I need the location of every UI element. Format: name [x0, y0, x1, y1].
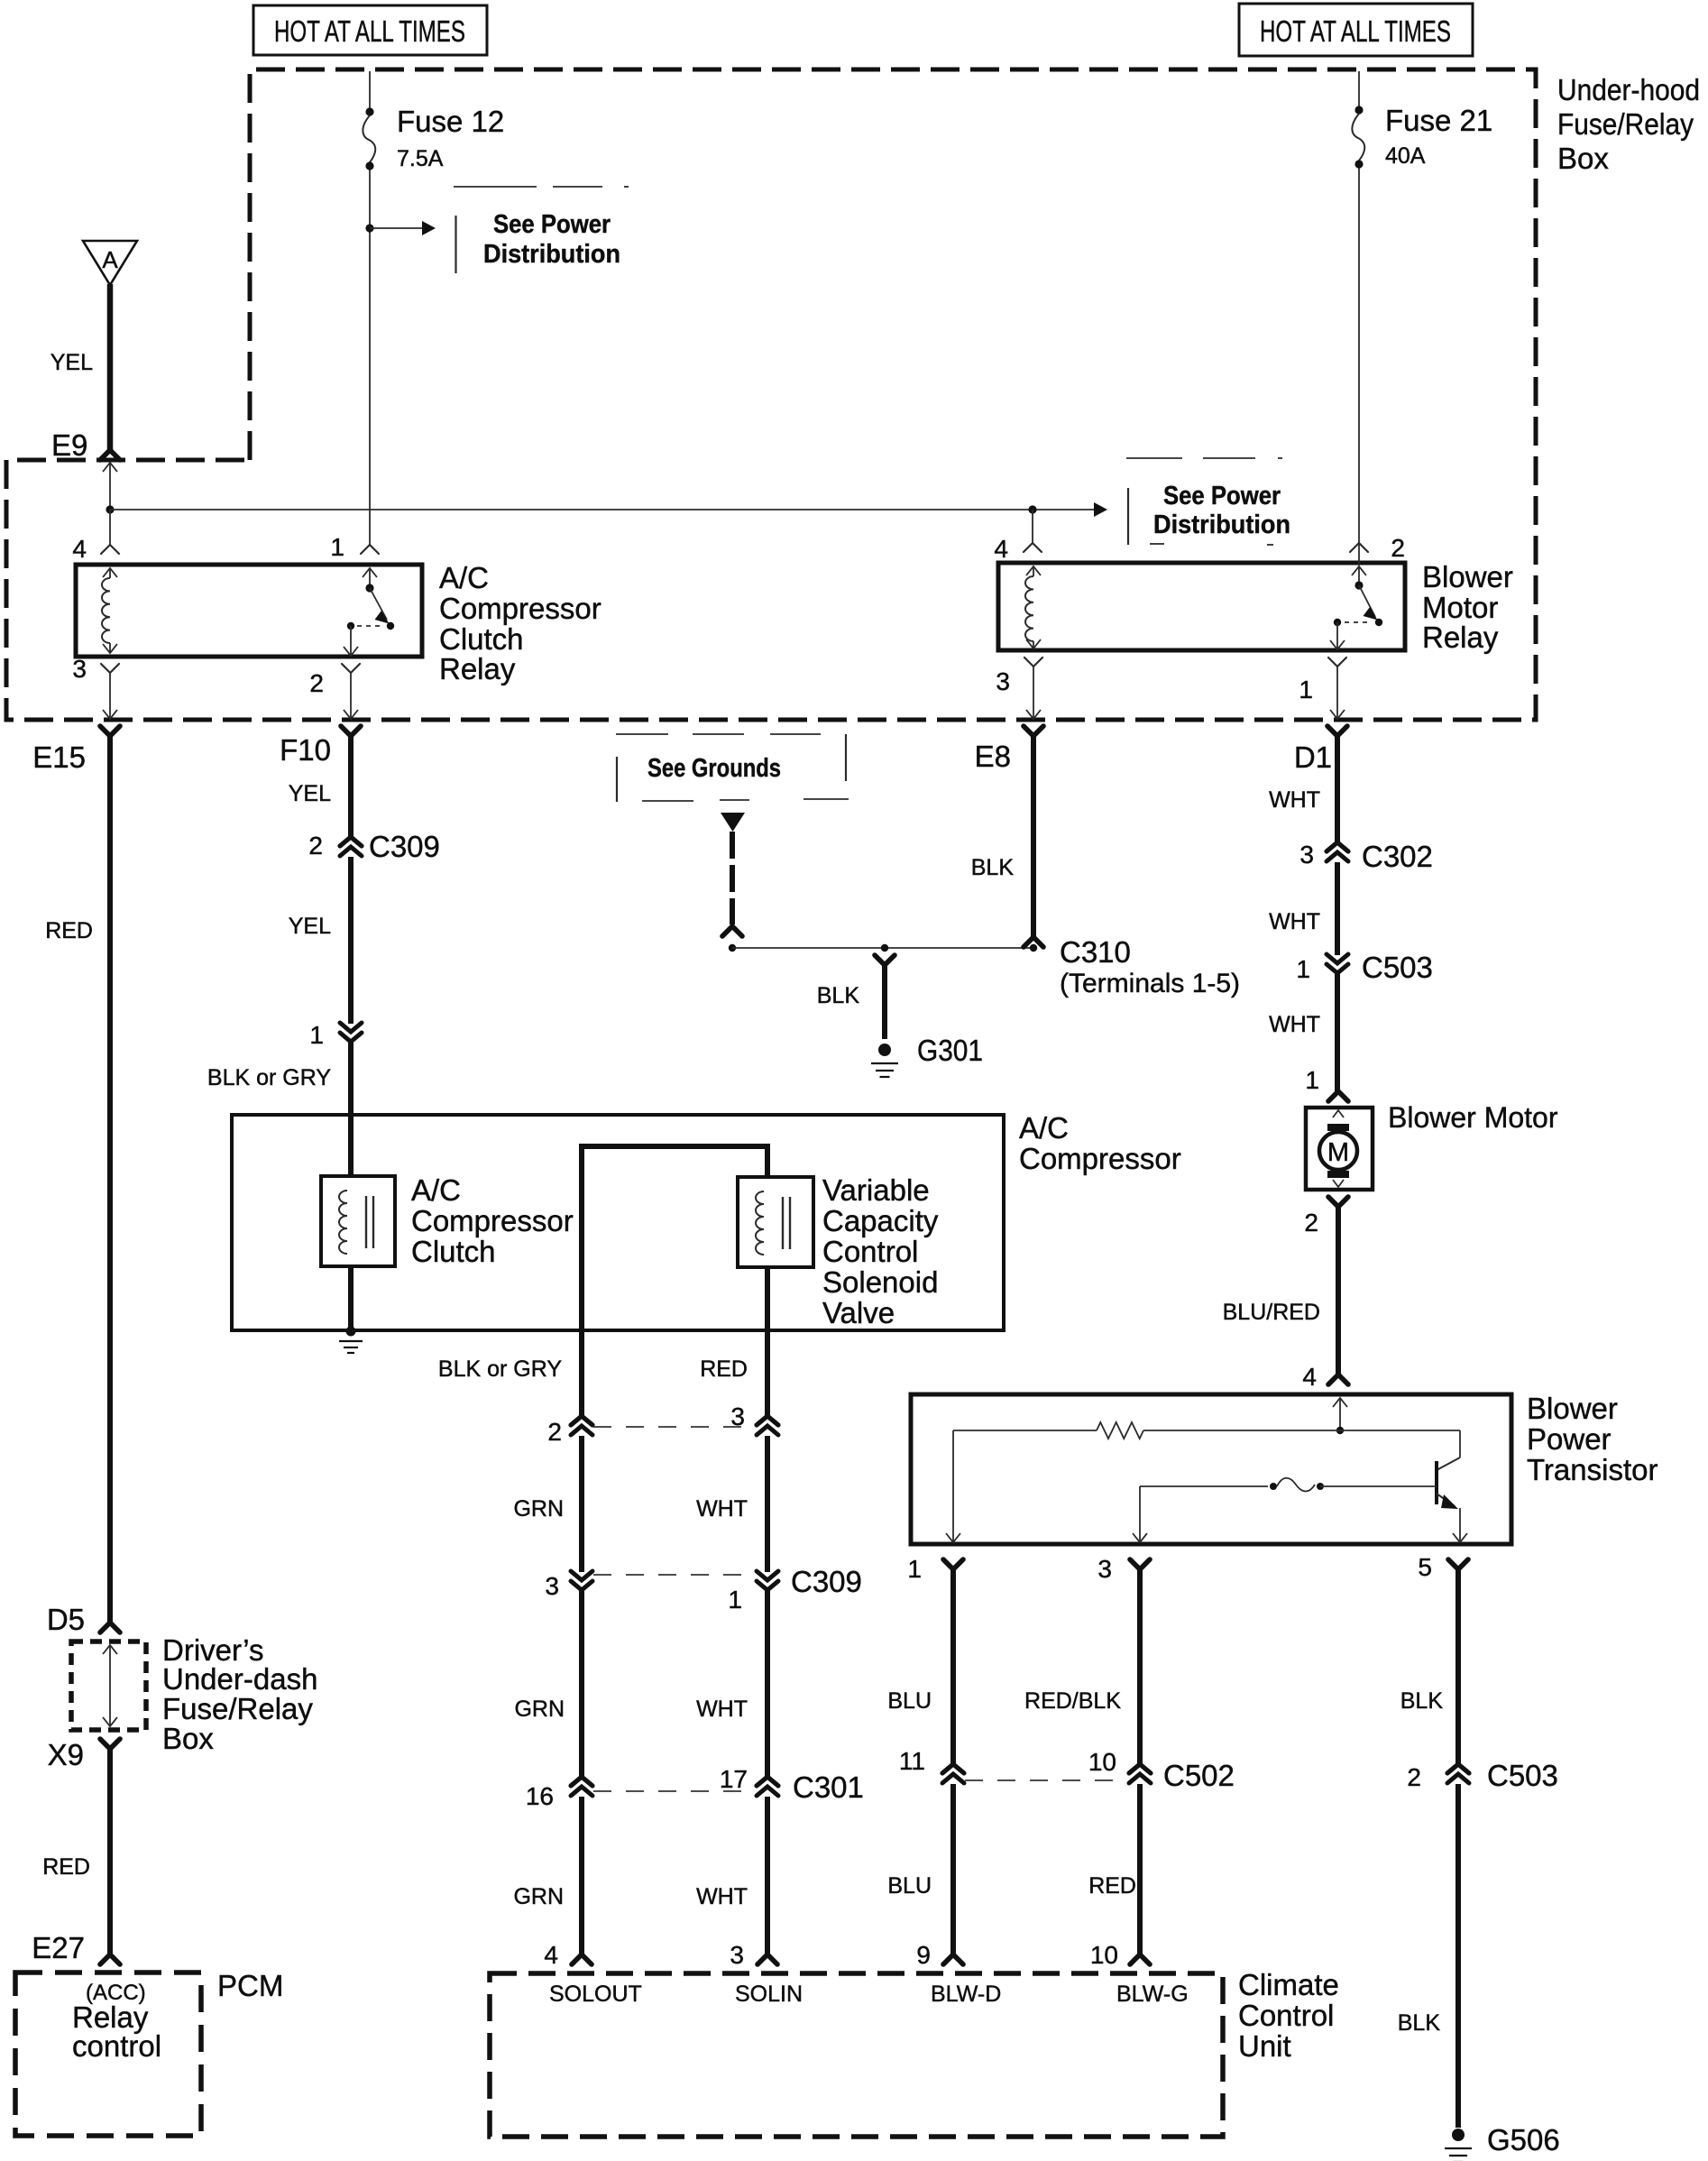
wire GRN (SOLOUT)	[579, 1436, 584, 1572]
svg-text:C310: C310	[1060, 935, 1131, 969]
fork transistor pin 1	[943, 1559, 963, 1569]
wire base to pin 3	[1139, 1486, 1141, 1533]
svg-text:HOT AT ALL TIMES: HOT AT ALL TIMES	[274, 14, 465, 48]
svg-text:Blower: Blower	[1527, 1392, 1618, 1425]
wire WHT C503 to blower motor	[1335, 974, 1340, 1091]
svg-text:2: 2	[1391, 534, 1405, 562]
pin 2 wire from fuse 21	[1358, 543, 1360, 566]
svg-text:BLU/RED: BLU/RED	[1223, 1300, 1320, 1325]
svg-text:See Grounds: See Grounds	[647, 754, 781, 783]
pin 4 connector fork	[101, 545, 119, 554]
blower motor symbol	[1333, 1110, 1344, 1117]
svg-text:3: 3	[72, 655, 87, 683]
wire BLK (pin5)	[1455, 1569, 1461, 1764]
svg-text:3: 3	[1299, 841, 1314, 869]
svg-text:WHT: WHT	[696, 1884, 748, 1909]
svg-text:Variable: Variable	[822, 1173, 930, 1207]
svg-text:Fuse 21: Fuse 21	[1385, 104, 1492, 137]
connector E15 (fork)	[100, 726, 120, 736]
relay K1 A/C compressor clutch relay (box)	[76, 565, 422, 657]
svg-text:2: 2	[1304, 1209, 1318, 1237]
inline connector C309 terminal 2	[340, 837, 362, 846]
wire solenoid top jog	[582, 1146, 767, 1416]
svg-text:2: 2	[308, 832, 323, 860]
wire solenoid bottom (RED)	[765, 1267, 770, 1416]
pin 1 arrow through dashed edge	[1330, 710, 1345, 719]
svg-text:Fuse/Relay: Fuse/Relay	[162, 1692, 313, 1725]
fork G301 lead	[875, 955, 895, 965]
wire WHT C302 to C503	[1335, 862, 1340, 955]
svg-text:10: 10	[1090, 1941, 1118, 1969]
svg-text:Capacity: Capacity	[822, 1204, 939, 1237]
PCM box (dashed)	[15, 1972, 201, 2136]
wire to blower relay pin 4	[1032, 510, 1033, 543]
wire WHT D1 to C302	[1335, 736, 1340, 843]
under-hood fuse/relay box (dashed outline)	[6, 69, 1536, 720]
svg-text:WHT: WHT	[696, 1697, 748, 1722]
svg-text:2: 2	[547, 1418, 562, 1446]
svg-text:3: 3	[545, 1572, 559, 1600]
svg-text:BLK or GRY: BLK or GRY	[438, 1356, 562, 1382]
svg-text:E27: E27	[32, 1931, 85, 1964]
svg-text:Compressor: Compressor	[439, 592, 601, 625]
svg-text:Fuse/Relay: Fuse/Relay	[1557, 107, 1694, 141]
svg-text:40A: 40A	[1385, 143, 1426, 169]
connector D5 (fork)	[100, 1623, 120, 1632]
pin 1 connector fork	[361, 545, 379, 554]
base fuse link	[1140, 1485, 1268, 1487]
arrow to See Power Distribution (left)	[370, 227, 422, 229]
wire WHT (SOLIN)	[765, 1436, 770, 1572]
connector X9 (fork)	[100, 1739, 120, 1749]
fork E8 to C310 line	[1024, 937, 1043, 947]
wire fuse 21 feed	[1358, 71, 1360, 110]
svg-text:4: 4	[994, 535, 1008, 563]
wire BLU to climate	[950, 1784, 956, 1954]
svg-text:A/C: A/C	[439, 561, 489, 594]
svg-text:3: 3	[1097, 1555, 1112, 1583]
node blower-relay branch	[1028, 505, 1036, 513]
clutch coil	[339, 1191, 347, 1254]
driver's under-dash fuse/relay box (dashed)	[71, 1641, 146, 1730]
wire to pin 1	[952, 1430, 954, 1533]
svg-text:A: A	[102, 246, 118, 273]
svg-text:C503: C503	[1487, 1759, 1558, 1792]
node transistor V+	[1336, 1427, 1344, 1434]
wire RED X9 to E27	[107, 1749, 113, 1954]
pin 3 arrow out of coil	[1026, 639, 1041, 648]
wire WHT (below C309)	[765, 1591, 770, 1777]
fork blower motor pin 1	[1328, 1091, 1348, 1101]
svg-text:Unit: Unit	[1238, 2029, 1291, 2063]
svg-text:PCM: PCM	[217, 1969, 283, 2002]
svg-text:C503: C503	[1362, 951, 1433, 984]
connector F10 (fork)	[341, 726, 361, 736]
pin 3 arrow out of coil	[103, 644, 117, 653]
svg-text:BLU: BLU	[887, 1873, 932, 1899]
inline connector C503 terminal 2	[1447, 1764, 1469, 1773]
svg-text:GRN: GRN	[514, 1697, 565, 1722]
wire RED to climate	[1137, 1784, 1143, 1954]
svg-text:Under-hood: Under-hood	[1557, 73, 1700, 106]
pin 3 fork (climate)	[758, 1954, 777, 1964]
pin 2 connector fork (blower relay)	[1350, 543, 1368, 552]
wire BLU/RED to transistor	[1336, 1207, 1341, 1375]
svg-text:D5: D5	[47, 1603, 85, 1636]
svg-text:17: 17	[720, 1765, 748, 1793]
svg-text:C301: C301	[793, 1770, 864, 1804]
svg-text:D1: D1	[1294, 740, 1332, 774]
svg-text:Relay: Relay	[439, 652, 516, 685]
blower motor M1 (box)	[1306, 1108, 1373, 1190]
pin 2 arrow through dashed edge	[344, 710, 358, 719]
pin 2 arrow through box edge	[344, 647, 358, 656]
svg-text:SOLIN: SOLIN	[735, 1982, 803, 2007]
svg-text:Distribution: Distribution	[483, 240, 620, 269]
svg-text:Compressor: Compressor	[411, 1204, 574, 1237]
inline connector terminals 2/3	[571, 1416, 592, 1425]
wire C310 bus	[732, 947, 1033, 949]
wire WHT to SOLIN	[765, 1797, 770, 1954]
variable capacity control solenoid valve (box)	[738, 1177, 813, 1267]
climate control unit (dashed box)	[490, 1973, 1223, 2137]
pin 2 wire to F10	[350, 673, 352, 711]
pin 3 connector fork	[101, 664, 119, 673]
svg-text:4: 4	[544, 1941, 558, 1969]
svg-text:E9: E9	[51, 428, 87, 462]
arrow into box at E9	[103, 463, 117, 472]
svg-text:BLW-D: BLW-D	[931, 1982, 1001, 2007]
transistor Q1	[1459, 1430, 1461, 1458]
svg-text:BLK: BLK	[817, 983, 860, 1008]
inline connector C503 terminal 1	[1327, 954, 1348, 963]
pin 2 arrow into relay	[1352, 566, 1366, 575]
pin 3 connector fork (blower relay)	[1024, 657, 1042, 667]
pin 2 wire inside relay	[350, 626, 352, 655]
wire BLK to G506	[1455, 1784, 1461, 2128]
ground G301	[878, 1044, 891, 1056]
svg-text:RED: RED	[700, 1356, 748, 1382]
pin 9 fork (climate)	[943, 1954, 963, 1964]
pin 1 connector fork (blower relay)	[1328, 657, 1346, 667]
svg-text:1: 1	[1296, 955, 1310, 983]
node G301 tap	[881, 944, 888, 952]
A/C compressor (box)	[232, 1115, 1004, 1330]
inline connector C302 terminal 3	[1327, 842, 1348, 851]
svg-text:1: 1	[330, 533, 344, 561]
relay K2 blower motor relay (box)	[998, 563, 1405, 650]
svg-text:Control: Control	[1238, 1999, 1334, 2032]
svg-text:See Power: See Power	[493, 210, 611, 239]
label box HOT AT ALL TIMES (left)	[253, 5, 487, 55]
svg-text:Valve: Valve	[822, 1296, 895, 1329]
node E9 junction	[106, 505, 114, 513]
svg-text:A/C: A/C	[411, 1173, 461, 1207]
svg-text:Relay: Relay	[1422, 621, 1499, 654]
svg-text:Blower: Blower	[1422, 560, 1513, 593]
svg-text:C302: C302	[1362, 840, 1433, 873]
wire YEL C309 to connector 1	[348, 857, 354, 1024]
svg-text:2: 2	[309, 669, 324, 697]
svg-text:GRN: GRN	[513, 1884, 564, 1909]
svg-text:Box: Box	[1557, 142, 1609, 175]
resistor R (internal)	[953, 1430, 1097, 1431]
pin 3 arrow through box edge	[103, 710, 117, 719]
pin 1 arrow into relay	[363, 568, 377, 577]
svg-text:4: 4	[1302, 1363, 1317, 1391]
svg-text:BLK: BLK	[971, 855, 1015, 880]
inline connector C502 terminals 11/10	[942, 1764, 964, 1773]
svg-text:SOLOUT: SOLOUT	[549, 1982, 642, 2007]
pin 10 fork (climate)	[1130, 1954, 1150, 1964]
wire YEL from A to E9	[107, 284, 114, 450]
ground lead arrow (triangle)	[721, 813, 745, 832]
pin 1 wire to D1	[1336, 667, 1338, 711]
pin 2 connector fork	[342, 664, 360, 673]
svg-text:3: 3	[996, 667, 1010, 695]
svg-text:E8: E8	[975, 740, 1011, 773]
svg-text:Clutch: Clutch	[411, 1235, 496, 1268]
svg-text:See Power: See Power	[1163, 482, 1281, 510]
wire GRN to SOLOUT	[579, 1797, 584, 1954]
wire RED/BLK	[1137, 1569, 1143, 1764]
relay K2 contact	[1354, 581, 1363, 589]
fork transistor pin 3	[1130, 1559, 1150, 1569]
svg-text:5: 5	[1418, 1553, 1432, 1581]
wire BLK or GRY to clutch	[348, 1043, 354, 1176]
pin 4 arrow inside	[1333, 1398, 1347, 1407]
see grounds ref	[616, 733, 668, 735]
svg-text:C309: C309	[791, 1565, 862, 1598]
connector E9 (fork)	[100, 450, 120, 460]
wire fuse 12 feed	[369, 71, 371, 112]
A/C compressor clutch (box)	[321, 1176, 395, 1266]
svg-text:HOT AT ALL TIMES: HOT AT ALL TIMES	[1260, 14, 1451, 48]
svg-text:RED/BLK: RED/BLK	[1024, 1688, 1121, 1714]
fuse F21	[1354, 106, 1363, 114]
svg-text:WHT: WHT	[1269, 909, 1320, 934]
svg-text:Motor: Motor	[1422, 591, 1498, 624]
relay K1 coil	[102, 578, 110, 643]
svg-text:3: 3	[730, 1941, 744, 1969]
wire RED E15 to D5	[107, 736, 113, 1623]
svg-text:M: M	[1327, 1138, 1349, 1167]
svg-text:BLU: BLU	[887, 1688, 932, 1714]
svg-text:GRN: GRN	[513, 1496, 564, 1522]
inline connector C301 terminals 16/17	[571, 1777, 592, 1786]
solenoid coil	[756, 1191, 764, 1255]
wire YEL F10 to C309	[348, 736, 354, 838]
pin 1 wire inside relay	[1336, 622, 1338, 648]
svg-text:A/C: A/C	[1019, 1111, 1069, 1145]
svg-text:YEL: YEL	[51, 350, 93, 375]
pin 3 wire to E8	[1033, 667, 1034, 711]
blower power transistor (box)	[911, 1394, 1511, 1544]
svg-text:3: 3	[730, 1402, 745, 1430]
wire clutch to case ground	[348, 1266, 354, 1329]
connector D1 (fork)	[1327, 726, 1347, 736]
inline connector C309 terminals 3/1	[571, 1571, 592, 1580]
wire GRN (below C309)	[579, 1591, 584, 1777]
connector A (triangle)	[83, 241, 137, 285]
svg-text:RED: RED	[42, 1854, 90, 1880]
wire BLU	[950, 1569, 956, 1764]
see power distribution ref (right)	[1126, 457, 1182, 459]
fork transistor pin 4	[1328, 1375, 1348, 1384]
svg-text:C502: C502	[1163, 1759, 1235, 1792]
wire dashed ground lead	[730, 832, 735, 924]
fork to C310 line	[722, 926, 742, 936]
svg-text:RED: RED	[45, 918, 93, 943]
relay K1 contact	[365, 584, 373, 592]
svg-text:Climate: Climate	[1238, 1968, 1339, 2001]
svg-text:RED: RED	[1088, 1873, 1136, 1899]
wire BLK to G301	[882, 965, 887, 1039]
svg-text:Under-dash: Under-dash	[162, 1662, 317, 1696]
pin 3 wire to E15	[109, 673, 111, 711]
fuse F12	[365, 107, 373, 115]
svg-text:Compressor: Compressor	[1019, 1142, 1181, 1175]
see power distribution ref (left)	[454, 186, 537, 188]
relay K2 coil	[1025, 576, 1033, 641]
pin 4 arrow into relay	[103, 568, 117, 577]
svg-text:Clutch: Clutch	[439, 622, 524, 656]
svg-text:Blower Motor: Blower Motor	[1388, 1101, 1558, 1134]
wire to A/C relay pin 4	[109, 510, 111, 545]
fork blower motor pin 2	[1328, 1197, 1348, 1207]
svg-text:WHT: WHT	[1269, 1012, 1320, 1037]
svg-text:9: 9	[916, 1941, 931, 1969]
svg-text:control: control	[72, 2029, 161, 2063]
svg-text:C309: C309	[369, 830, 440, 863]
pin 4 connector fork (blower relay)	[1024, 543, 1042, 552]
fork transistor pin 5	[1448, 1559, 1468, 1569]
svg-text:Fuse 12: Fuse 12	[397, 105, 504, 138]
node C310 right	[1030, 944, 1037, 952]
inline connector terminal 1	[340, 1023, 362, 1032]
svg-text:Distribution: Distribution	[1153, 510, 1290, 539]
svg-text:Power: Power	[1527, 1422, 1612, 1456]
ground G506	[1452, 2129, 1465, 2141]
svg-text:1: 1	[728, 1586, 742, 1614]
svg-text:YEL: YEL	[289, 781, 331, 806]
svg-text:WHT: WHT	[1269, 787, 1320, 813]
wire through under-dash box	[103, 1645, 117, 1654]
svg-text:2: 2	[1407, 1763, 1421, 1791]
svg-text:E15: E15	[32, 740, 86, 774]
svg-text:G301: G301	[917, 1034, 983, 1067]
svg-text:YEL: YEL	[289, 914, 331, 939]
label box HOT AT ALL TIMES (right)	[1239, 4, 1473, 56]
svg-text:16: 16	[526, 1782, 554, 1810]
svg-text:F10: F10	[280, 733, 331, 767]
svg-text:BLW-G: BLW-G	[1116, 1982, 1189, 2007]
pin 4 fork (climate)	[572, 1954, 592, 1964]
svg-text:1: 1	[309, 1021, 324, 1049]
svg-text:Transistor: Transistor	[1527, 1453, 1657, 1486]
node C310 left	[729, 944, 736, 952]
svg-text:BLK: BLK	[1398, 2010, 1441, 2036]
svg-text:4: 4	[72, 535, 87, 563]
svg-text:G506: G506	[1487, 2123, 1560, 2156]
arrow to See Power Distribution (right)	[1033, 509, 1094, 510]
svg-text:Control: Control	[822, 1235, 918, 1268]
svg-text:X9: X9	[48, 1738, 84, 1771]
wire E9 branch line	[110, 509, 1033, 510]
svg-text:1: 1	[907, 1555, 922, 1583]
pin 1 arrow through box edge	[1330, 640, 1345, 649]
svg-text:7.5A: 7.5A	[397, 146, 444, 171]
pin 3 arrow through dashed edge	[1026, 710, 1041, 719]
svg-text:BLK: BLK	[1400, 1688, 1444, 1714]
connector E8 (fork)	[1024, 726, 1043, 736]
svg-text:WHT: WHT	[696, 1496, 748, 1522]
svg-text:1: 1	[1299, 676, 1313, 703]
svg-text:11: 11	[899, 1747, 925, 1775]
svg-text:1: 1	[1305, 1066, 1319, 1094]
pin 4 arrow into relay	[1026, 566, 1041, 575]
wire BLK E8 to C310	[1031, 736, 1036, 937]
node fuse12 branch	[365, 224, 373, 232]
svg-text:(Terminals 1-5): (Terminals 1-5)	[1060, 969, 1240, 998]
connector E27 (fork)	[100, 1954, 120, 1964]
svg-text:10: 10	[1088, 1748, 1116, 1776]
svg-text:Solenoid: Solenoid	[822, 1265, 938, 1299]
svg-text:BLK or GRY: BLK or GRY	[207, 1065, 331, 1090]
clutch case ground	[346, 1327, 356, 1337]
svg-text:Box: Box	[162, 1722, 214, 1755]
